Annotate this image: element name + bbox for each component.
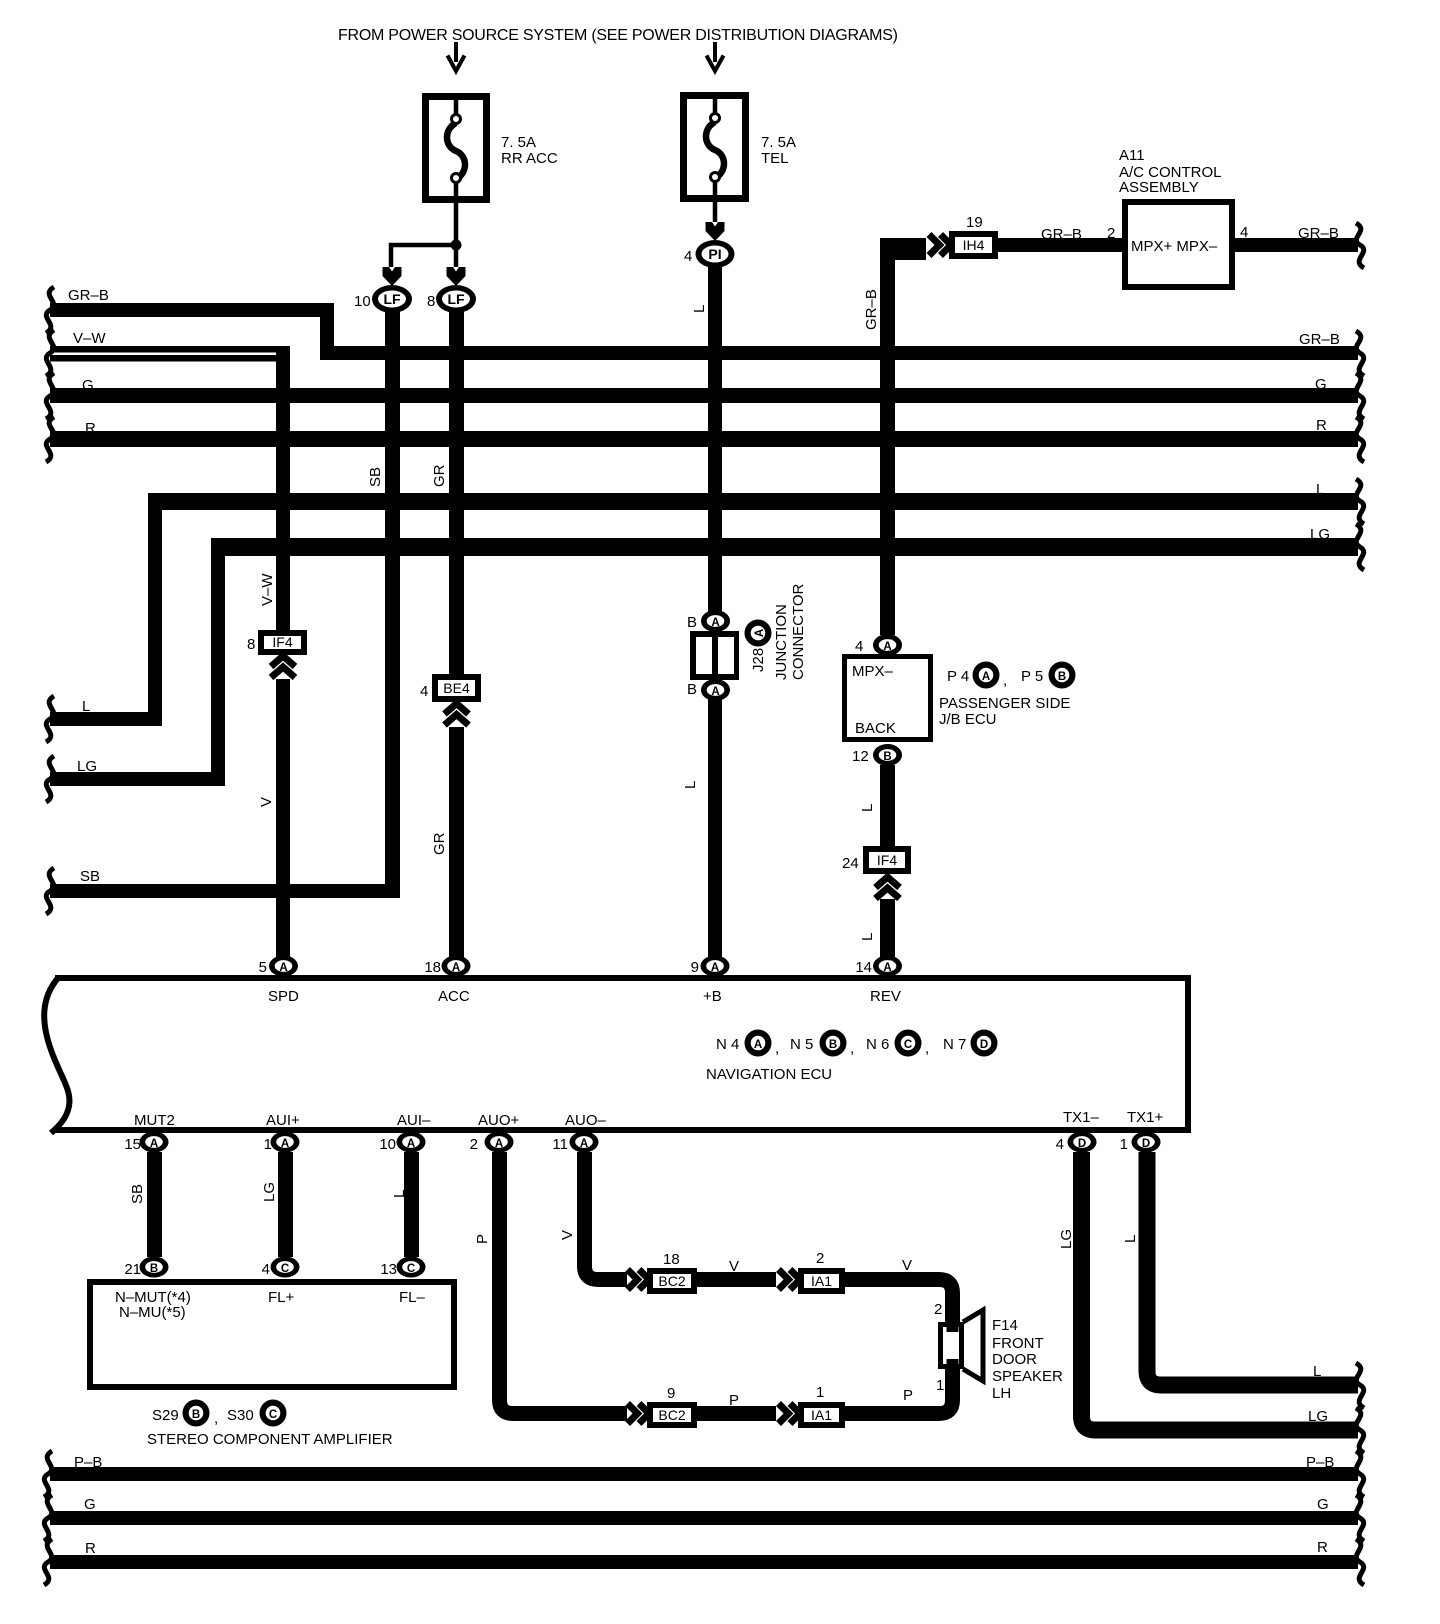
svg-text:1: 1: [1120, 1136, 1128, 1153]
P4 P5 pin circles and passenger side J/B ECU label: [939, 662, 1076, 729]
bus P-B bottom: [50, 1454, 1358, 1481]
svg-text:L: L: [691, 305, 708, 313]
curly break right end of bottom G bus: [1356, 1495, 1364, 1541]
svg-text:4: 4: [420, 683, 428, 700]
svg-text:,: ,: [925, 1040, 929, 1057]
svg-text:REV: REV: [870, 988, 901, 1005]
svg-text:CONNECTOR: CONNECTOR: [790, 583, 807, 680]
bus GR-B left segment: [50, 287, 334, 317]
svg-text:R: R: [1317, 1539, 1328, 1556]
svg-text:TX1+: TX1+: [1127, 1109, 1164, 1126]
pin 10 A AUI- on ECU bottom edge: [379, 1112, 431, 1153]
double chevron arrow right into BC2 (row 1): [628, 1270, 650, 1290]
bus R bottom: [50, 1539, 1358, 1569]
L stub wire from left edge turning up into L bus: [50, 498, 162, 726]
svg-text:P 5: P 5: [1021, 668, 1043, 685]
svg-text:A: A: [982, 671, 990, 683]
junction connector 4 BE4: [420, 674, 481, 702]
fuse 7.5A RR ACC: [426, 93, 558, 243]
svg-text:GR–B: GR–B: [1299, 331, 1340, 348]
curly break left end of bottom R bus: [44, 1539, 52, 1585]
wire V-W double line from left: [50, 330, 290, 362]
svg-text:LG: LG: [77, 758, 97, 775]
wire L from TX1+ down and right to break: [1122, 1152, 1358, 1385]
svg-text:GR–B: GR–B: [863, 289, 880, 330]
svg-text:A: A: [580, 1138, 588, 1150]
svg-text:,: ,: [1003, 672, 1007, 689]
svg-text:SB: SB: [80, 868, 100, 885]
wire V from IA1 to front door speaker: [845, 1257, 953, 1324]
svg-text:NAVIGATION ECU: NAVIGATION ECU: [706, 1066, 832, 1083]
curly break right end of GR-B bus: [1356, 331, 1364, 376]
wire L from connector 4 PI down to junction connector: [691, 265, 722, 614]
svg-text:R: R: [1316, 417, 1327, 434]
svg-text:4: 4: [1240, 224, 1248, 241]
bus L: [148, 481, 1358, 510]
pin 4 C on stereo amplifier: [262, 1257, 300, 1279]
svg-text:BC2: BC2: [658, 1273, 685, 1289]
svg-text:FROM POWER SOURCE SYSTEM (SEE: FROM POWER SOURCE SYSTEM (SEE POWER DIST…: [338, 27, 898, 44]
svg-text:P–B: P–B: [1306, 1454, 1334, 1471]
svg-text:PI: PI: [708, 246, 721, 262]
svg-text:ASSEMBLY: ASSEMBLY: [1119, 179, 1199, 196]
svg-text:B: B: [883, 751, 891, 763]
svg-text:A: A: [452, 962, 460, 974]
pin 1 D TX1+ on ECU bottom edge: [1120, 1109, 1164, 1153]
LG stub wire from left edge turning up into LG bus: [50, 543, 225, 786]
svg-text:2: 2: [470, 1136, 478, 1153]
pin 11 A AUO- on ECU bottom edge: [552, 1112, 606, 1153]
svg-text:B: B: [150, 1263, 158, 1275]
junction connector J28 (two-cell box with A pins): [687, 583, 807, 701]
svg-text:B: B: [687, 614, 697, 631]
MPX- BACK box (passenger side J/B ECU): [845, 657, 931, 740]
svg-text:L: L: [391, 1190, 408, 1198]
step wire joining GR-B left to GR-B right bus: [320, 303, 334, 360]
svg-text:,: ,: [214, 1410, 218, 1427]
curly break right end of G bus: [1356, 373, 1364, 419]
wire GR-B from IH4 to A/C control assembly: [998, 225, 1122, 252]
svg-text:A: A: [883, 641, 891, 653]
svg-text:ACC: ACC: [438, 988, 470, 1005]
svg-text:LG: LG: [1310, 526, 1330, 543]
svg-text:LF: LF: [383, 291, 401, 307]
svg-text:P 4: P 4: [947, 668, 969, 685]
curly break right end of R bus: [1356, 417, 1364, 462]
wire GR-B from A/C assembly to right break: [1235, 224, 1358, 252]
svg-text:BACK: BACK: [855, 720, 896, 737]
svg-text:N 4: N 4: [716, 1036, 739, 1053]
N4 N5 N6 N7 pin circles inside navigation ECU: [716, 1030, 998, 1058]
svg-text:D: D: [980, 1039, 988, 1051]
svg-text:2: 2: [816, 1250, 824, 1267]
svg-text:TX1–: TX1–: [1063, 1109, 1100, 1126]
double chevron arrow right into IA1 (row 2): [779, 1404, 801, 1424]
curly break left end of GR-B bus: [46, 287, 54, 333]
svg-text:12: 12: [852, 748, 869, 765]
svg-text:V–W: V–W: [259, 573, 276, 606]
curly break left end of V-W: [46, 330, 54, 376]
svg-text:8: 8: [427, 293, 435, 310]
svg-text:BC2: BC2: [658, 1407, 685, 1423]
svg-text:GR–B: GR–B: [68, 287, 109, 304]
svg-text:B: B: [1058, 671, 1066, 683]
svg-text:BE4: BE4: [443, 680, 470, 696]
bus G: [50, 376, 1358, 403]
svg-text:D: D: [1078, 1138, 1086, 1150]
svg-text:A: A: [279, 962, 287, 974]
svg-text:AUO+: AUO+: [478, 1112, 520, 1129]
pin 21 B on stereo amplifier: [124, 1257, 168, 1279]
pin 9 A +B on ECU top edge: [691, 956, 730, 1006]
svg-text:1: 1: [936, 1377, 944, 1394]
curly break right end of LG lower wire: [1356, 1408, 1364, 1453]
svg-text:LF: LF: [447, 291, 465, 307]
svg-text:LG: LG: [1308, 1408, 1328, 1425]
svg-text:RR ACC: RR ACC: [501, 150, 558, 167]
pin 2 A AUO+ on ECU bottom edge: [470, 1112, 520, 1153]
pin 4 D TX1- on ECU bottom edge: [1056, 1109, 1100, 1153]
svg-text:N 6: N 6: [866, 1036, 889, 1053]
pin 1 A AUI+ on ECU bottom edge: [264, 1112, 300, 1153]
svg-text:G: G: [1315, 376, 1327, 393]
svg-text:C: C: [269, 1409, 277, 1421]
svg-text:21: 21: [124, 1261, 141, 1278]
svg-text:8: 8: [247, 636, 255, 653]
svg-text:N 7: N 7: [943, 1036, 966, 1053]
svg-text:+B: +B: [703, 988, 722, 1005]
svg-text:J/B ECU: J/B ECU: [939, 711, 997, 728]
svg-text:P: P: [474, 1234, 491, 1244]
svg-text:S30: S30: [227, 1407, 254, 1424]
pin 18 A ACC on ECU top edge: [424, 956, 470, 1006]
svg-text:N–MU(*5): N–MU(*5): [119, 1304, 186, 1321]
wire LG from AUI+ to stereo amplifier: [261, 1152, 293, 1257]
wire L from junction connector down to +B pin: [682, 698, 722, 960]
curly break left end of G bus: [46, 373, 54, 419]
svg-text:LH: LH: [992, 1385, 1011, 1402]
wire SB vertical from connector 10 LF down to SB stub: [367, 310, 400, 898]
wire V from IF4 down to SPD pin: [258, 679, 290, 960]
wire L from 12 B down to IF4: [859, 765, 895, 846]
junction connector 1 IA1 (row 2): [798, 1384, 845, 1428]
svg-text:P–B: P–B: [74, 1454, 102, 1471]
svg-text:2: 2: [934, 1301, 942, 1318]
svg-text:18: 18: [424, 959, 441, 976]
pin 15 A MUT2 on ECU bottom edge: [124, 1112, 175, 1153]
svg-text:9: 9: [667, 1385, 675, 1402]
curly break left end of LG stub: [46, 756, 54, 802]
svg-text:4: 4: [1056, 1136, 1064, 1153]
svg-text:SPEAKER: SPEAKER: [992, 1368, 1063, 1385]
svg-text:11: 11: [552, 1136, 568, 1153]
double chevron arrow right into BC2 (row 2): [628, 1404, 650, 1424]
A/C control assembly A11 box MPX+ MPX-: [1119, 147, 1232, 287]
svg-text:7. 5A: 7. 5A: [761, 134, 796, 151]
svg-text:FRONT: FRONT: [992, 1335, 1044, 1352]
svg-text:G: G: [82, 377, 94, 394]
svg-text:A: A: [281, 1138, 289, 1150]
svg-text:V–W: V–W: [73, 330, 106, 347]
svg-text:GR: GR: [431, 832, 448, 855]
svg-text:B: B: [829, 1039, 837, 1051]
svg-text:FL–: FL–: [399, 1289, 426, 1306]
svg-text:18: 18: [663, 1251, 680, 1268]
double chevron arrow up below BE4: [445, 704, 469, 726]
svg-text:A: A: [711, 617, 719, 629]
svg-text:A: A: [407, 1138, 415, 1150]
wire P from AUO+ down and right to BC2: [474, 1152, 627, 1414]
svg-text:4: 4: [855, 638, 863, 655]
svg-text:L: L: [859, 933, 876, 941]
wire L from IF4 down to REV pin: [859, 899, 895, 960]
svg-text:FL+: FL+: [268, 1289, 295, 1306]
pin 13 C on stereo amplifier: [380, 1257, 425, 1279]
svg-text:A: A: [754, 629, 766, 637]
svg-text:L: L: [82, 698, 90, 715]
wire GR vertical from connector 8 LF down to BE4: [431, 310, 464, 678]
svg-text:,: ,: [775, 1040, 779, 1057]
junction connector 19 IH4: [949, 214, 998, 259]
curly break right end of LG bus: [1356, 524, 1364, 570]
svg-text:AUO–: AUO–: [565, 1112, 607, 1129]
svg-text:A: A: [150, 1138, 158, 1150]
stereo component amplifier box: [90, 1282, 454, 1387]
svg-text:L: L: [1313, 1363, 1321, 1380]
front door speaker F14 LH: [941, 1310, 1064, 1402]
svg-text:IF4: IF4: [877, 852, 897, 868]
svg-text:SB: SB: [129, 1184, 146, 1204]
svg-text:V: V: [559, 1230, 576, 1240]
svg-text:L: L: [859, 804, 876, 812]
svg-text:V: V: [902, 1257, 912, 1274]
wire L from AUI- to stereo amplifier: [391, 1152, 419, 1257]
svg-text:GR: GR: [431, 464, 448, 487]
svg-text:F14: F14: [992, 1317, 1018, 1334]
double chevron arrow up below 24 IF4: [876, 877, 900, 899]
svg-text:JUNCTION: JUNCTION: [773, 604, 790, 680]
wire LG from TX1- down and right to break: [1058, 1152, 1358, 1430]
svg-text:DOOR: DOOR: [992, 1351, 1037, 1368]
svg-text:GR–B: GR–B: [1041, 226, 1082, 243]
svg-text:J28: J28: [750, 648, 767, 672]
svg-text:P: P: [903, 1387, 913, 1404]
svg-text:AUI–: AUI–: [397, 1112, 431, 1129]
wire branch to connector 10 LF: [391, 245, 456, 267]
svg-text:14: 14: [855, 959, 872, 976]
wire V-W vertical from V-W bus down to IF4: [259, 346, 290, 630]
wire from power source into fuse 1 with open arrowhead: [448, 42, 465, 71]
svg-text:MUT2: MUT2: [134, 1112, 175, 1129]
pin 4 A into MPX- box: [855, 634, 902, 656]
svg-text:7. 5A: 7. 5A: [501, 134, 536, 151]
svg-text:IH4: IH4: [963, 237, 985, 253]
svg-text:C: C: [904, 1039, 912, 1051]
svg-text:R: R: [85, 1540, 96, 1557]
bus G bottom: [50, 1496, 1358, 1525]
svg-text:B: B: [687, 681, 697, 698]
svg-text:19: 19: [966, 214, 983, 231]
svg-text:STEREO COMPONENT AMPLIFIER: STEREO COMPONENT AMPLIFIER: [147, 1431, 393, 1448]
svg-text:P: P: [729, 1392, 739, 1409]
junction connector 2 IA1 (row 1): [798, 1250, 845, 1294]
bus LG: [211, 526, 1358, 556]
svg-text:MPX+ MPX–: MPX+ MPX–: [1131, 238, 1218, 255]
svg-text:4: 4: [684, 248, 692, 265]
junction connector 24 IF4: [842, 846, 911, 874]
wire from power source into fuse 2 with open arrowhead: [707, 42, 724, 71]
svg-text:24: 24: [842, 855, 859, 872]
curly break left end of SB stub: [46, 868, 54, 914]
NAVIGATION ECU box: [44, 975, 1191, 1133]
junction connector 8 IF4: [247, 630, 307, 655]
double chevron arrow up below IF4: [271, 656, 295, 678]
bus R: [50, 417, 1358, 447]
svg-text:LG: LG: [261, 1182, 278, 1202]
svg-text:G: G: [1317, 1496, 1329, 1513]
curly break left end of L stub: [46, 696, 54, 742]
fuse 7.5A TEL: [684, 92, 797, 222]
junction connector 18 BC2 (row 1): [647, 1251, 697, 1294]
svg-text:N 5: N 5: [790, 1036, 813, 1053]
curly break left end of R bus: [46, 417, 54, 462]
svg-text:L: L: [1316, 481, 1324, 498]
wire SB from MUT2 to stereo amplifier: [129, 1152, 162, 1257]
svg-text:PASSENGER SIDE: PASSENGER SIDE: [939, 695, 1070, 712]
svg-text:4: 4: [262, 1261, 270, 1278]
svg-text:5: 5: [259, 959, 267, 976]
svg-text:1: 1: [816, 1384, 824, 1401]
svg-text:10: 10: [379, 1136, 396, 1153]
curly break right end of L bus: [1356, 479, 1364, 524]
wire GR from BE4 down to ACC pin: [431, 727, 464, 960]
curly break right end of P-B bus: [1356, 1451, 1364, 1497]
svg-text:SB: SB: [367, 467, 384, 487]
connector 4 PI (male arrow into oval): [684, 222, 735, 268]
svg-text:A: A: [711, 962, 719, 974]
svg-text:A: A: [711, 686, 719, 698]
svg-text:2: 2: [1107, 225, 1115, 242]
svg-text:B: B: [192, 1409, 200, 1421]
curly break right end of L lower wire: [1356, 1363, 1364, 1408]
curly break left end of bottom G bus: [44, 1495, 52, 1541]
svg-text:L: L: [1122, 1235, 1139, 1243]
curly break right end of top GR-B wire: [1356, 223, 1364, 268]
junction connector 9 BC2 (row 2): [647, 1385, 697, 1428]
pin 12 B below MPX- box: [852, 744, 902, 766]
wire V from AUO- down and right to BC2: [559, 1152, 627, 1280]
pin 5 A SPD on ECU top edge: [259, 956, 299, 1006]
svg-text:IA1: IA1: [811, 1273, 832, 1289]
wire V from BC2 to IA1 (row 1): [697, 1258, 776, 1287]
junction node under fuse 1: [451, 240, 462, 251]
svg-text:D: D: [1142, 1138, 1150, 1150]
svg-text:10: 10: [354, 293, 371, 310]
curly break right end of bottom R bus: [1356, 1539, 1364, 1585]
svg-text:C: C: [281, 1263, 289, 1275]
svg-text:15: 15: [124, 1136, 141, 1153]
svg-text:S29: S29: [152, 1407, 179, 1424]
wire P from BC2 to IA1 (row 2): [697, 1392, 776, 1421]
svg-text:1: 1: [264, 1136, 272, 1153]
svg-text:A: A: [754, 1039, 762, 1051]
double chevron arrow right into IH4: [929, 235, 951, 256]
svg-text:IF4: IF4: [272, 634, 292, 650]
svg-text:AUI+: AUI+: [266, 1112, 300, 1129]
bus GR-B right segment: [320, 331, 1358, 360]
svg-text:SPD: SPD: [268, 988, 299, 1005]
svg-text:A: A: [883, 962, 891, 974]
SB stub wire from left edge: [50, 868, 400, 898]
svg-text:L: L: [682, 781, 699, 789]
wire GR-B vertical with corner to IH4: [863, 238, 926, 635]
curly break left end of P-B bus: [44, 1451, 52, 1497]
svg-text:C: C: [407, 1263, 415, 1275]
double chevron arrow right into IA1 (row 1): [779, 1270, 801, 1290]
connector 8 LF (male arrow into oval): [427, 267, 476, 313]
svg-text:G: G: [84, 1496, 96, 1513]
svg-text:,: ,: [850, 1040, 854, 1057]
svg-text:TEL: TEL: [761, 150, 789, 167]
svg-text:V: V: [729, 1258, 739, 1275]
svg-text:LG: LG: [1058, 1229, 1075, 1249]
pin 14 A REV on ECU top edge: [855, 956, 902, 1006]
S29 S30 pin circles below amplifier: [147, 1400, 393, 1449]
svg-text:A11: A11: [1119, 147, 1145, 164]
svg-text:R: R: [85, 420, 96, 437]
svg-text:MPX–: MPX–: [852, 663, 894, 680]
svg-text:V: V: [258, 797, 275, 807]
svg-text:9: 9: [691, 959, 699, 976]
svg-text:IA1: IA1: [811, 1407, 832, 1423]
connector 10 LF (male arrow into oval): [354, 267, 412, 313]
svg-text:GR–B: GR–B: [1298, 225, 1339, 242]
wire P from IA1 up to front door speaker: [845, 1367, 953, 1414]
svg-text:13: 13: [380, 1261, 397, 1278]
svg-text:A: A: [495, 1138, 503, 1150]
